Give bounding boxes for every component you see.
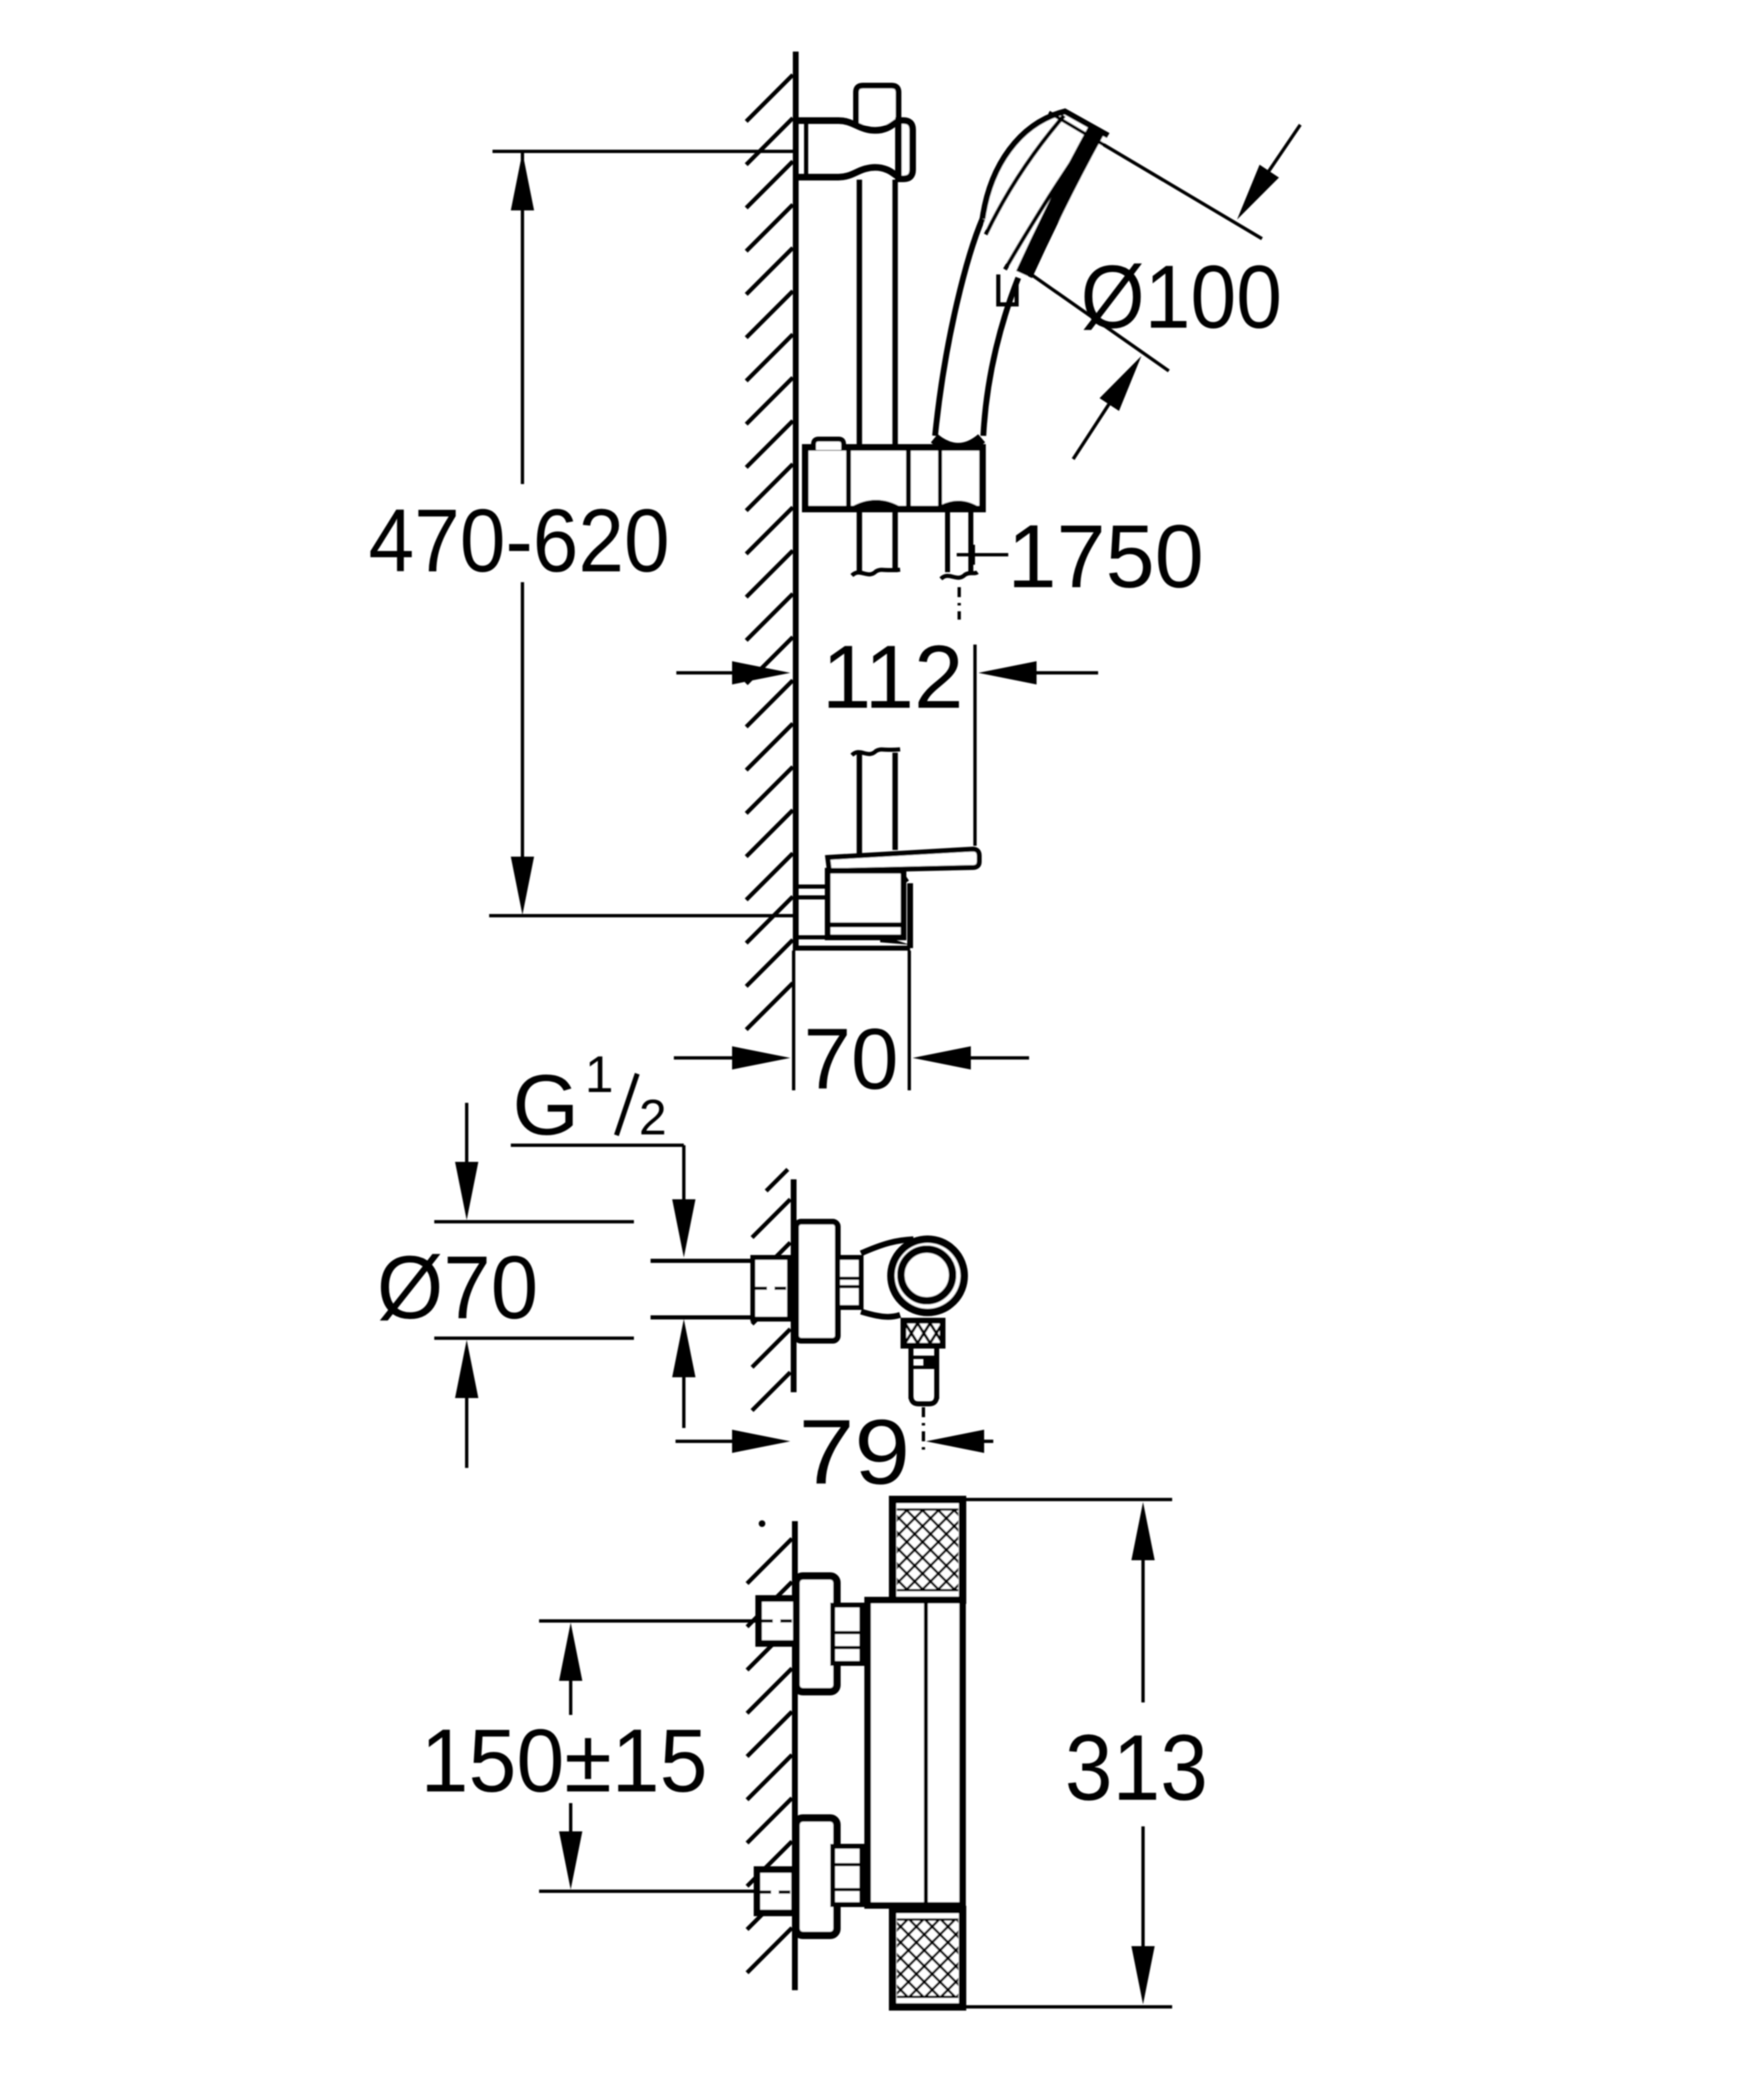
svg-text:Ø100: Ø100: [1081, 246, 1282, 347]
svg-text:313: 313: [1065, 1716, 1208, 1820]
svg-text:112: 112: [822, 626, 963, 727]
svg-text:G: G: [512, 1057, 579, 1153]
svg-text:1750: 1750: [1007, 506, 1204, 606]
svg-text:2: 2: [639, 1090, 666, 1145]
svg-text:79: 79: [799, 1401, 910, 1504]
svg-text:Ø70: Ø70: [377, 1237, 538, 1337]
svg-text:70: 70: [804, 1011, 898, 1108]
svg-text:1: 1: [585, 1046, 613, 1104]
svg-text:150±15: 150±15: [421, 1710, 708, 1811]
svg-text:470-620: 470-620: [369, 490, 670, 590]
